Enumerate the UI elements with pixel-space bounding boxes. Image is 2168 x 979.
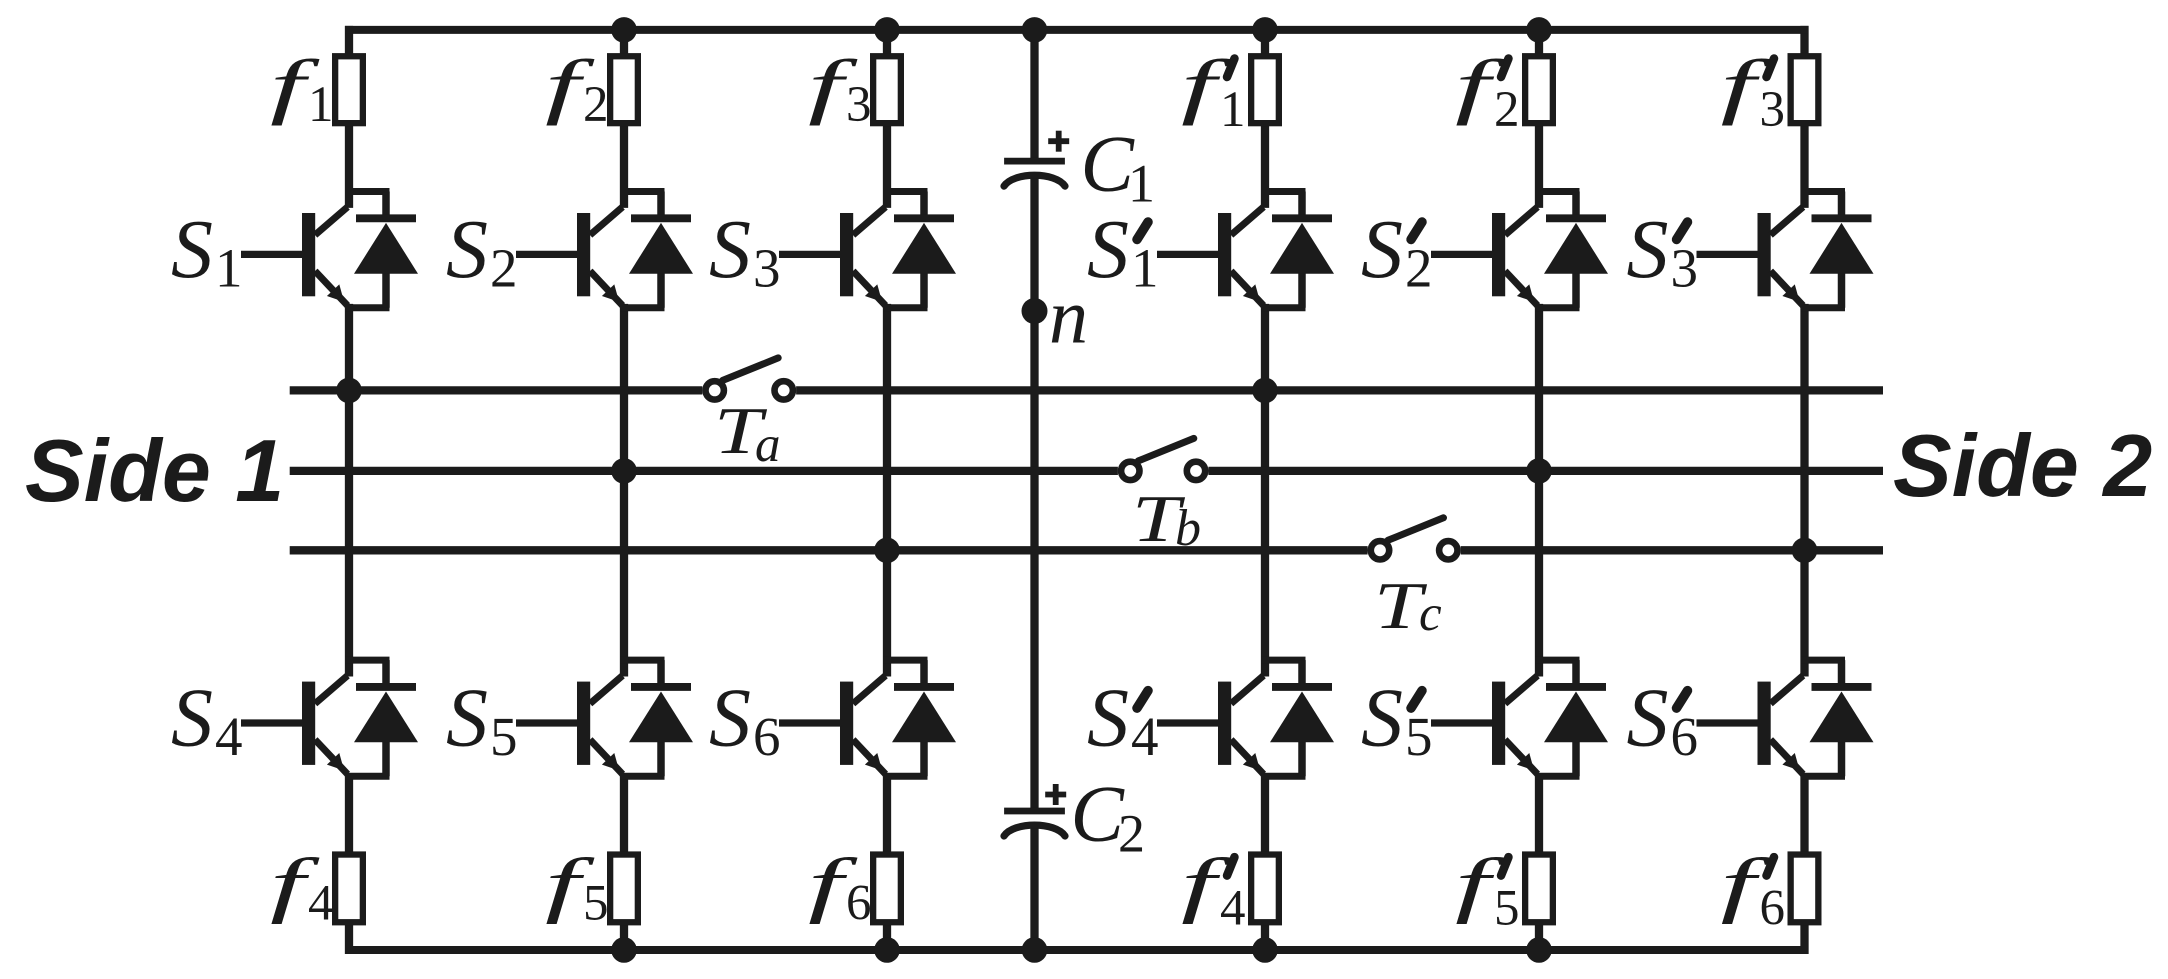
svg-text:S: S [1627,672,1669,765]
svg-text:4: 4 [1220,881,1246,937]
svg-text:6: 6 [753,706,781,767]
svg-text:3: 3 [1671,238,1699,299]
svg-text:S: S [446,203,488,296]
svg-text:Side 1: Side 1 [25,421,284,520]
svg-text:5: 5 [1494,881,1520,937]
svg-text:6: 6 [1760,881,1786,937]
svg-text:5: 5 [490,706,518,767]
svg-text:5: 5 [583,876,609,932]
svg-text:c: c [1419,586,1442,642]
svg-text:2: 2 [1405,238,1433,299]
svg-text:5: 5 [1405,706,1433,767]
svg-text:Side 2: Side 2 [1893,416,2152,515]
svg-text:b: b [1175,500,1201,557]
svg-text:S: S [709,672,751,765]
svg-text:S: S [1627,203,1669,296]
svg-text:4: 4 [1131,706,1159,767]
svg-text:1: 1 [1220,82,1246,138]
svg-text:2: 2 [1494,82,1520,138]
svg-text:1: 1 [1131,238,1159,299]
svg-text:1: 1 [215,238,243,299]
svg-text:S: S [1087,672,1129,765]
svg-text:S: S [171,203,213,296]
svg-text:S: S [446,672,488,765]
svg-text:S: S [709,203,751,296]
svg-text:6: 6 [1671,706,1699,767]
svg-text:3: 3 [753,238,781,299]
svg-text:3: 3 [1760,82,1786,138]
svg-text:2: 2 [1118,804,1145,864]
svg-text:S: S [1361,672,1403,765]
svg-text:S: S [171,672,213,765]
svg-text:6: 6 [846,876,872,932]
svg-text:S: S [1087,203,1129,296]
svg-text:2: 2 [490,238,518,299]
svg-text:1: 1 [1128,154,1155,214]
svg-text:2: 2 [583,77,609,133]
svg-text:a: a [755,417,781,473]
svg-text:1: 1 [308,77,334,133]
svg-text:4: 4 [215,706,243,767]
svg-text:4: 4 [308,876,334,932]
svg-text:3: 3 [846,77,872,133]
svg-text:S: S [1361,203,1403,296]
svg-text:n: n [1049,273,1088,360]
